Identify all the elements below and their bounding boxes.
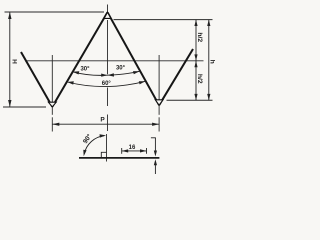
- svg-text:P: P: [100, 116, 105, 123]
- dimension h/2 line (upper and lower): [195, 20, 197, 101]
- dimension 30 degree arc (upper, two halves): [73, 72, 108, 76]
- node left root centerline: [51, 55, 53, 132]
- dimension P arrows: [52, 123, 59, 126]
- dimension h arrows: [207, 20, 210, 26]
- svg-text:h/2: h/2: [196, 32, 203, 42]
- dimension flat thickness upper arrow: [154, 138, 156, 151]
- node center axis line: [107, 5, 109, 132]
- dimension flat thickness lower arrow: [154, 165, 156, 174]
- node right root sharp-point triangle: [155, 100, 163, 105]
- wire sharp root line (bottom left): [3, 106, 46, 108]
- arrows of 60 degree arc: [67, 81, 74, 84]
- dimension 16 arrows: [122, 149, 129, 152]
- svg-text:30°: 30°: [116, 65, 126, 71]
- wire right outer flank: [159, 49, 193, 105]
- svg-text:H: H: [10, 59, 17, 64]
- dimension H line: [9, 13, 11, 107]
- node detail vertical line: [106, 134, 108, 162]
- wire truncated crest line (top right): [114, 19, 213, 21]
- wire left outer flank: [21, 52, 52, 107]
- svg-text:60°: 60°: [102, 81, 112, 87]
- svg-text:h: h: [209, 60, 216, 64]
- dimension h line: [208, 20, 210, 101]
- svg-text:30°: 30°: [80, 66, 90, 72]
- svg-text:16: 16: [129, 145, 136, 151]
- dimension h/2 arrows: [194, 20, 197, 26]
- dimension H arrows: [8, 12, 11, 19]
- node left root sharp-point triangle: [48, 102, 56, 107]
- svg-text:h/2: h/2: [196, 74, 203, 84]
- wire detail baseline: [79, 157, 159, 159]
- arrows of 90 degree arc: [83, 150, 86, 157]
- wire sharp crest line (top left): [5, 11, 105, 13]
- dimension 60 degree arc (lower): [67, 81, 145, 86]
- node apex sharp-point triangle: [104, 12, 111, 18]
- dimension 90 degree arc: [84, 136, 104, 154]
- wire left root to apex flank: [52, 12, 107, 107]
- node right-angle marker: [101, 152, 106, 158]
- wire truncated root line (bottom right): [167, 99, 213, 101]
- node hook tick: [151, 137, 156, 139]
- node right root centerline: [158, 55, 160, 132]
- wire pitch line: [25, 60, 204, 62]
- dimension 16 line: [122, 150, 147, 152]
- arrows of 30 degree arc: [73, 71, 80, 74]
- dimension P line: [52, 123, 159, 125]
- dimension 16 end ticks: [121, 148, 123, 154]
- wire apex to right root flank: [108, 12, 160, 105]
